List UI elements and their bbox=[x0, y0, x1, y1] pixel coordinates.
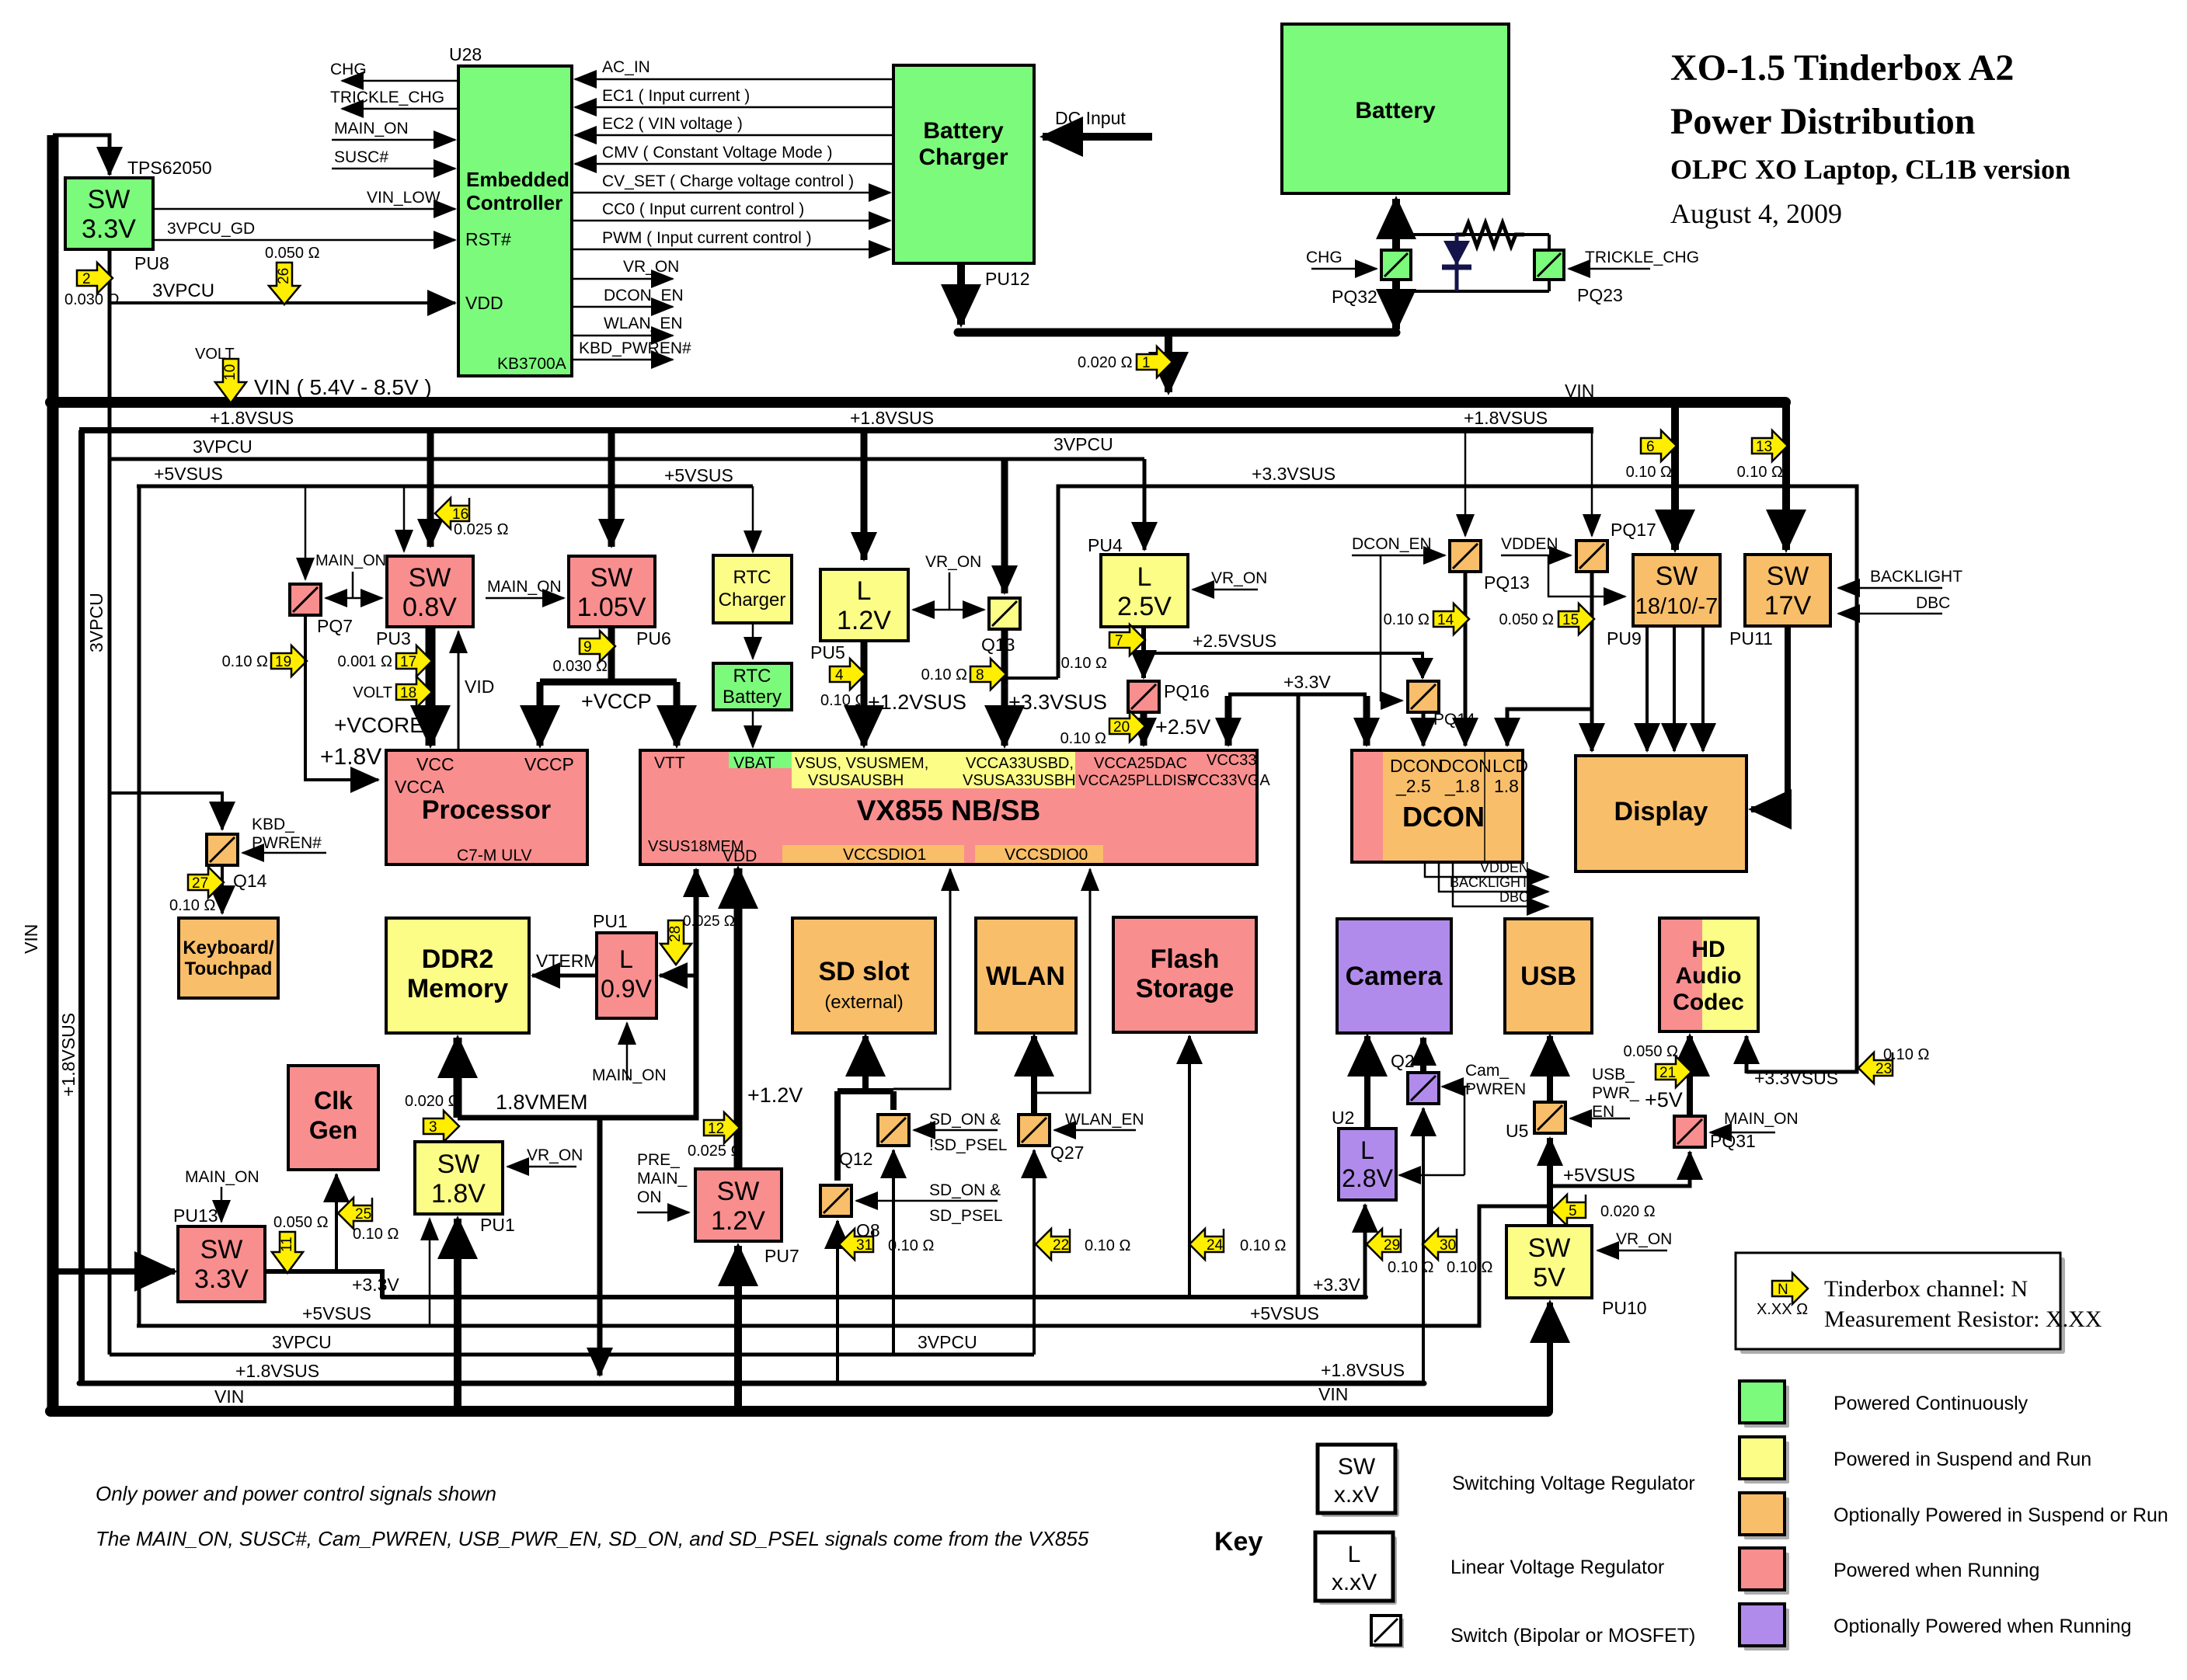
switch Q2 bbox=[1408, 1073, 1439, 1104]
svg-text:SW: SW bbox=[1767, 562, 1809, 591]
wire Q8 to +1.8VSUS bbox=[836, 1221, 839, 1383]
label Q12 bbox=[839, 1149, 872, 1169]
svg-text:PU10: PU10 bbox=[1602, 1298, 1647, 1318]
svg-text:PU5: PU5 bbox=[810, 642, 845, 663]
node VIN label bottom right bbox=[1318, 1384, 1348, 1404]
node +5VSUS label top left bbox=[154, 464, 223, 484]
wire Q12 to 3VPCU bbox=[892, 1150, 895, 1355]
svg-text:9: 9 bbox=[583, 639, 592, 656]
wire EC2 bbox=[575, 115, 893, 135]
switch PQ32 bbox=[1381, 250, 1411, 280]
svg-text:CV_SET ( Charge voltage contro: CV_SET ( Charge voltage control ) bbox=[602, 172, 854, 190]
svg-text:X.XX Ω: X.XX Ω bbox=[1757, 1301, 1808, 1318]
svg-text:x.xV: x.xV bbox=[1332, 1570, 1377, 1595]
wire VTERM L0.9V to DDR2 bbox=[532, 951, 599, 976]
label Q8 bbox=[856, 1220, 880, 1240]
svg-text:DCON_EN: DCON_EN bbox=[1352, 535, 1432, 553]
regulator PU11 SW 17V bbox=[1745, 555, 1830, 626]
svg-text:+1.2V: +1.2V bbox=[747, 1083, 803, 1107]
node +5VSUS label bottom right bbox=[1250, 1303, 1319, 1323]
svg-text:PWREN#: PWREN# bbox=[252, 834, 322, 852]
svg-text:_2.5: _2.5 bbox=[1395, 776, 1431, 796]
wire Q8 to SD junction bbox=[834, 1091, 841, 1181]
legend swatch red bbox=[1740, 1548, 1789, 1595]
switch PQ31 bbox=[1674, 1116, 1705, 1147]
svg-text:PU12: PU12 bbox=[985, 269, 1030, 289]
regulator PU1 L 0.9V bbox=[597, 933, 656, 1018]
label PU10 bbox=[1602, 1298, 1647, 1318]
svg-text:0.10 Ω: 0.10 Ω bbox=[353, 1226, 399, 1243]
svg-text:MAIN_ON: MAIN_ON bbox=[487, 578, 562, 596]
channel arrow 27 bbox=[169, 867, 224, 914]
svg-text:VTT: VTT bbox=[654, 754, 685, 772]
svg-text:30: 30 bbox=[1440, 1237, 1456, 1254]
svg-text:28: 28 bbox=[667, 926, 684, 942]
node +1.8VSUS label bottom right bbox=[1321, 1360, 1405, 1380]
channel arrow 29 bbox=[1367, 1229, 1433, 1276]
svg-text:PWR_: PWR_ bbox=[1592, 1084, 1639, 1102]
wire charger bus to VIN bbox=[1165, 332, 1172, 392]
svg-text:VIN: VIN bbox=[1318, 1384, 1348, 1404]
svg-text:Camera: Camera bbox=[1346, 962, 1443, 991]
wire 3VPCU top bus bbox=[110, 249, 1144, 1355]
label TPS62050 bbox=[127, 158, 212, 178]
svg-text:EN: EN bbox=[1592, 1103, 1614, 1121]
wire L2.8V to Camera bbox=[1364, 1036, 1370, 1129]
svg-text:AC_IN: AC_IN bbox=[602, 58, 650, 76]
chip WLAN bbox=[976, 918, 1076, 1033]
wire Q27 to 3VPCU bbox=[1033, 1150, 1036, 1355]
svg-text:11: 11 bbox=[279, 1237, 295, 1252]
svg-text:WLAN_EN: WLAN_EN bbox=[1065, 1111, 1144, 1129]
channel arrow 6 bbox=[1626, 430, 1677, 481]
svg-text:+3.3V: +3.3V bbox=[1283, 672, 1331, 692]
label Switching Voltage Regulator bbox=[1452, 1473, 1695, 1494]
regulator PU9 SW 18/10/-7 bbox=[1633, 555, 1720, 626]
svg-text:EC1 ( Input current ): EC1 ( Input current ) bbox=[602, 87, 750, 105]
wire PQ32 down to charger bus bbox=[1392, 280, 1400, 329]
svg-text:+VCORE: +VCORE bbox=[334, 713, 424, 737]
chip Display bbox=[1576, 756, 1746, 871]
svg-text:VIN: VIN bbox=[214, 1386, 244, 1407]
wire PRE_MAIN_ON to SW1.2V bbox=[637, 1151, 689, 1212]
legend swatch purple bbox=[1740, 1604, 1789, 1650]
channel arrow 3 bbox=[405, 1093, 460, 1142]
channel arrow 28 bbox=[660, 913, 735, 965]
svg-text:15: 15 bbox=[1562, 612, 1579, 628]
svg-text:EC2 ( VIN voltage ): EC2 ( VIN voltage ) bbox=[602, 115, 743, 133]
svg-text:23: 23 bbox=[1875, 1061, 1892, 1077]
wire VR_ON to L2.5V bbox=[1193, 569, 1267, 590]
svg-text:CC0 ( Input current control ): CC0 ( Input current control ) bbox=[602, 200, 804, 218]
svg-text:2.8V: 2.8V bbox=[1342, 1164, 1393, 1192]
svg-text:26: 26 bbox=[276, 268, 292, 284]
svg-text:21: 21 bbox=[1659, 1065, 1676, 1081]
wire +5VSUS to RTC Charger bbox=[752, 486, 754, 552]
svg-text:PU1: PU1 bbox=[480, 1215, 515, 1235]
node +3.3VSUS label bottom bbox=[1754, 1068, 1838, 1088]
node 3VPCU label top left bbox=[193, 437, 252, 457]
svg-text:PU1: PU1 bbox=[593, 911, 628, 931]
wire +5VSUS bottom bus bbox=[137, 1206, 1548, 1326]
wire +2.5VSUS to PQ14 bbox=[1412, 655, 1433, 680]
key box L x.xV bbox=[1315, 1532, 1397, 1605]
label PQ16 bbox=[1164, 681, 1210, 701]
svg-text:PQ16: PQ16 bbox=[1164, 681, 1210, 701]
channel arrow 24 bbox=[1189, 1229, 1286, 1260]
node +1.8VSUS label top mid bbox=[850, 408, 934, 428]
wire VIN to SW1.8V bbox=[454, 1219, 461, 1411]
svg-text:VCC33VGA: VCC33VGA bbox=[1187, 772, 1270, 789]
wire CHG into PQ32 bbox=[1306, 249, 1377, 269]
wire PQ7 output +1.8V to Processor VCCA bbox=[305, 615, 381, 780]
legend swatch green bbox=[1740, 1381, 1789, 1428]
svg-text:29: 29 bbox=[1384, 1237, 1400, 1254]
label PU3 bbox=[376, 628, 411, 649]
svg-text:DCON_EN: DCON_EN bbox=[604, 287, 684, 304]
svg-text:Touchpad: Touchpad bbox=[185, 958, 273, 979]
svg-text:Measurement Resistor: X.XX: Measurement Resistor: X.XX bbox=[1824, 1306, 2102, 1332]
switch PQ13 bbox=[1450, 541, 1481, 572]
svg-text:0.10 Ω: 0.10 Ω bbox=[169, 897, 215, 914]
chip Flash Storage bbox=[1113, 917, 1256, 1032]
svg-text:!SD_PSEL: !SD_PSEL bbox=[929, 1136, 1007, 1154]
svg-text:x.xV: x.xV bbox=[1334, 1482, 1379, 1508]
svg-text:KBD_PWREN#: KBD_PWREN# bbox=[579, 339, 691, 357]
svg-text:+1.8VSUS: +1.8VSUS bbox=[210, 408, 294, 428]
channel arrow 17 bbox=[337, 645, 432, 677]
wire PWM bbox=[572, 229, 890, 249]
wire SW18 outputs to Display bbox=[1647, 626, 1703, 751]
label PQ31 bbox=[1710, 1131, 1756, 1151]
svg-text:+1.8VSUS: +1.8VSUS bbox=[1321, 1360, 1405, 1380]
svg-text:4: 4 bbox=[835, 667, 844, 683]
chip Keyboard/Touchpad bbox=[179, 918, 278, 998]
wire Q2 to +1.8VSUS bbox=[1422, 1108, 1425, 1383]
key box SW x.xV bbox=[1318, 1445, 1399, 1517]
channel arrow 20 bbox=[1060, 711, 1145, 747]
svg-text:0.025 Ω: 0.025 Ω bbox=[454, 521, 509, 538]
label note1 bbox=[96, 1482, 496, 1505]
svg-text:22: 22 bbox=[1053, 1237, 1069, 1254]
svg-text:DBC: DBC bbox=[1916, 594, 1950, 612]
wire +1.8VSUS to SW0.8V bbox=[427, 430, 434, 547]
wire +3.3V arrows into VX855 and DCON bbox=[1228, 696, 1367, 746]
svg-text:Battery: Battery bbox=[723, 687, 782, 708]
diode trickle charge bbox=[1442, 235, 1471, 291]
svg-text:VCCA: VCCA bbox=[395, 777, 445, 797]
svg-text:SW: SW bbox=[200, 1235, 243, 1264]
channel arrow 31 bbox=[839, 1229, 934, 1260]
svg-text:0.10 Ω: 0.10 Ω bbox=[1883, 1046, 1929, 1063]
wire 3VPCU to Q13 bbox=[1001, 459, 1008, 593]
svg-text:VDDEN: VDDEN bbox=[1501, 535, 1558, 553]
svg-text:BACKLIGHT: BACKLIGHT bbox=[1870, 568, 1962, 586]
label PU6 bbox=[636, 628, 671, 649]
svg-text:+1.2VSUS: +1.2VSUS bbox=[868, 690, 966, 714]
label PU12 bbox=[985, 269, 1030, 289]
chip DDR2 Memory bbox=[386, 918, 529, 1033]
svg-text:Charger: Charger bbox=[719, 590, 786, 610]
label PQ17 bbox=[1611, 520, 1656, 540]
wire DCON DBC output bbox=[1453, 862, 1548, 906]
svg-text:TRICKLE_CHG: TRICKLE_CHG bbox=[330, 89, 444, 106]
wire +5VSUS to SW1.8V bbox=[429, 1219, 431, 1326]
svg-text:0.050 Ω: 0.050 Ω bbox=[265, 245, 320, 262]
wire VIN to SW5V bbox=[1547, 1303, 1553, 1411]
svg-text:0.10 Ω: 0.10 Ω bbox=[1384, 611, 1430, 628]
svg-text:0.10 Ω: 0.10 Ω bbox=[1240, 1237, 1286, 1254]
wire SD_ON & SD_PSEL into Q8 bbox=[856, 1181, 1003, 1225]
wire +3.3VSUS top bus bbox=[1058, 486, 1857, 1072]
svg-text:0.8V: 0.8V bbox=[402, 593, 457, 622]
wire +3.3V mid rail riser bbox=[1297, 694, 1301, 1297]
svg-text:KBD_: KBD_ bbox=[252, 816, 294, 833]
svg-text:CMV ( Constant Voltage Mode ): CMV ( Constant Voltage Mode ) bbox=[602, 144, 832, 162]
channel arrow 25 bbox=[338, 1198, 399, 1243]
label title line3 bbox=[1670, 154, 2070, 185]
svg-text:Optionally Powered when Runnin: Optionally Powered when Running bbox=[1834, 1616, 2132, 1637]
svg-text:0.050 Ω: 0.050 Ω bbox=[1623, 1043, 1678, 1060]
node +2.5VSUS label bbox=[1193, 631, 1276, 651]
svg-text:SD_ON &: SD_ON & bbox=[929, 1181, 1001, 1199]
svg-text:VCCA25PLLDISP: VCCA25PLLDISP bbox=[1078, 773, 1196, 789]
svg-text:PU8: PU8 bbox=[134, 253, 169, 273]
wire VIN_LOW bbox=[153, 189, 455, 209]
svg-text:0.10 Ω: 0.10 Ω bbox=[1447, 1259, 1492, 1276]
battery RTC Battery bbox=[713, 663, 792, 710]
wire +1.8VSUS to PQ13 bbox=[1464, 430, 1467, 536]
regulator PU6 SW 1.05V bbox=[569, 556, 655, 627]
svg-text:0.030 Ω: 0.030 Ω bbox=[64, 291, 120, 308]
wire SW5V output +5VSUS bbox=[1550, 1138, 1690, 1226]
svg-text:Optionally Powered in Suspend: Optionally Powered in Suspend or Run bbox=[1834, 1504, 2168, 1526]
svg-text:VR_ON: VR_ON bbox=[527, 1146, 583, 1164]
wire 1.8VMEM to L0.9V input bbox=[660, 974, 696, 978]
svg-text:PRE_: PRE_ bbox=[637, 1151, 680, 1169]
svg-text:DDR2: DDR2 bbox=[422, 944, 494, 974]
wire VR_ON to SW5V bbox=[1597, 1230, 1672, 1250]
wire +1.8VSUS top bus bbox=[79, 427, 1593, 433]
regulator RTC Charger bbox=[713, 555, 792, 623]
wire Q12 to SD junction bbox=[890, 1091, 897, 1110]
wire MAIN_ON to PQ7 and SW0.8V bbox=[315, 552, 386, 598]
wire PU12 charger output bbox=[958, 263, 1396, 332]
switch PQ17 bbox=[1576, 541, 1607, 572]
svg-text:Powered when Running: Powered when Running bbox=[1834, 1560, 2039, 1581]
wire VIN to SW17V bbox=[1782, 402, 1790, 550]
node 3VPCU label left vertical bbox=[86, 593, 106, 652]
wire CHG out bbox=[330, 61, 458, 81]
svg-text:Linear Voltage Regulator: Linear Voltage Regulator bbox=[1450, 1557, 1664, 1578]
svg-text:OLPC XO Laptop, CL1B version: OLPC XO Laptop, CL1B version bbox=[1670, 154, 2070, 185]
label PQ23 bbox=[1577, 285, 1623, 305]
svg-text:Memory: Memory bbox=[407, 974, 508, 1003]
svg-text:SD_ON &: SD_ON & bbox=[929, 1111, 1001, 1129]
svg-text:VSUSA33USBH: VSUSA33USBH bbox=[963, 772, 1076, 789]
wire VIN tap to TPS62050 bbox=[53, 135, 110, 175]
wire PQ14 output to DCON bbox=[1422, 712, 1426, 746]
svg-text:DC Input: DC Input bbox=[1055, 108, 1126, 128]
wire BACKLIGHT into SW17V bbox=[1838, 568, 1962, 588]
label PQ7 bbox=[317, 616, 353, 636]
svg-text:SUSC#: SUSC# bbox=[334, 148, 388, 166]
svg-text:0.025 Ω: 0.025 Ω bbox=[683, 913, 735, 930]
label Powered when Running bbox=[1834, 1560, 2039, 1581]
svg-text:0.020 Ω: 0.020 Ω bbox=[1600, 1203, 1656, 1220]
wire +3.3V mid rail bbox=[1228, 693, 1367, 697]
label PU7 bbox=[764, 1246, 799, 1266]
switch PQ23 bbox=[1534, 250, 1564, 280]
label Q14 bbox=[233, 871, 267, 891]
svg-text:RTC: RTC bbox=[733, 666, 771, 687]
svg-text:2.5V: 2.5V bbox=[1117, 592, 1172, 621]
regulator PU3 SW 0.8V bbox=[387, 556, 473, 627]
wire EC1 bbox=[575, 87, 893, 107]
wire MAIN_ON into PQ31 bbox=[1710, 1110, 1799, 1132]
svg-text:VCC: VCC bbox=[416, 754, 454, 774]
svg-text:Audio: Audio bbox=[1676, 963, 1742, 989]
wire USB feed from U5 bbox=[1547, 1036, 1553, 1102]
svg-text:18: 18 bbox=[400, 685, 416, 701]
svg-text:17: 17 bbox=[400, 654, 416, 670]
label Optionally Powered in Suspend or Run bbox=[1834, 1504, 2168, 1526]
svg-text:+1.8VSUS: +1.8VSUS bbox=[235, 1361, 319, 1381]
wire VID bbox=[458, 631, 494, 750]
wire USB_PWR_EN into U5 bbox=[1570, 1066, 1639, 1121]
svg-text:SD_PSEL: SD_PSEL bbox=[929, 1207, 1003, 1225]
chip HD Audio Codec bbox=[1659, 918, 1758, 1031]
svg-text:(external): (external) bbox=[824, 992, 903, 1013]
svg-text:VCCA25DAC: VCCA25DAC bbox=[1094, 755, 1187, 772]
svg-text:PQ17: PQ17 bbox=[1611, 520, 1656, 540]
svg-text:0.9V: 0.9V bbox=[601, 975, 652, 1003]
svg-text:0.10 Ω: 0.10 Ω bbox=[1060, 730, 1106, 747]
svg-text:VSUS, VSUSMEM,: VSUS, VSUSMEM, bbox=[795, 755, 928, 772]
wire WLAN_EN into Q27 bbox=[1054, 1111, 1144, 1130]
svg-text:3: 3 bbox=[429, 1119, 437, 1136]
switch PQ14 bbox=[1408, 681, 1439, 712]
wire +3.3V to L2.8V bbox=[1363, 1205, 1367, 1297]
regulator PU10 SW 5V bbox=[1506, 1226, 1592, 1298]
switch Q12 bbox=[878, 1115, 909, 1146]
svg-text:0.050 Ω: 0.050 Ω bbox=[1499, 611, 1554, 628]
svg-text:KB3700A: KB3700A bbox=[497, 355, 566, 373]
svg-text:U2: U2 bbox=[1332, 1108, 1354, 1128]
svg-text:Switch (Bipolar or MOSFET): Switch (Bipolar or MOSFET) bbox=[1450, 1625, 1695, 1647]
channel arrow 22 bbox=[1036, 1229, 1130, 1260]
node +5VSUS label bottom left bbox=[302, 1303, 371, 1323]
svg-text:SW: SW bbox=[1656, 562, 1698, 591]
label U28 bbox=[449, 44, 482, 64]
wire VIN to PU13 bbox=[53, 1268, 175, 1275]
wire +3.3VSUS to HD Audio right leg bbox=[1745, 1036, 1749, 1073]
wire TRICKLE_CHG into PQ23 bbox=[1569, 249, 1699, 269]
svg-text:MAIN_ON: MAIN_ON bbox=[315, 552, 386, 569]
wire VIN to SW18 bbox=[1671, 402, 1679, 550]
wire VCCSDIO1 tap bbox=[893, 869, 950, 1089]
channel arrow 23 bbox=[1858, 1046, 1929, 1083]
wire VIN top bus bbox=[50, 397, 1785, 408]
svg-text:3VPCU: 3VPCU bbox=[152, 280, 214, 301]
svg-text:3VPCU: 3VPCU bbox=[918, 1332, 977, 1352]
wire WLAN feed from Q27 bbox=[1031, 1036, 1037, 1115]
svg-text:DCON: DCON bbox=[1402, 801, 1485, 833]
regulator PU8 SW 3.3V (TPS62050) bbox=[65, 178, 153, 249]
label PQ14 bbox=[1433, 711, 1475, 729]
node 3VPCU label bottom left bbox=[272, 1332, 332, 1352]
wire +VCORE SW0.8V output bbox=[334, 627, 430, 746]
svg-text:C7-M ULV: C7-M ULV bbox=[457, 847, 531, 864]
chip DCON bbox=[1352, 750, 1528, 862]
label VIN range bbox=[254, 375, 432, 399]
channel arrow 12 bbox=[688, 1112, 743, 1160]
chip USB bbox=[1505, 919, 1592, 1033]
wire +5VSUS top bus bbox=[137, 485, 753, 489]
svg-text:+5V: +5V bbox=[1645, 1088, 1683, 1111]
node +1.8VSUS label left vertical bbox=[58, 1013, 78, 1097]
svg-text:27: 27 bbox=[192, 875, 208, 892]
wire PU13 output to +3.3V bbox=[265, 1271, 382, 1297]
svg-text:SW: SW bbox=[1338, 1454, 1376, 1480]
svg-text:XO-1.5 Tinderbox A2: XO-1.5 Tinderbox A2 bbox=[1670, 47, 2014, 89]
svg-text:VR_ON: VR_ON bbox=[925, 553, 981, 571]
label PQ13 bbox=[1484, 572, 1530, 593]
switch Q13 bbox=[989, 598, 1020, 629]
wire SD slot feed bbox=[838, 1036, 893, 1091]
svg-text:Only power and power control s: Only power and power control signals sho… bbox=[96, 1482, 496, 1505]
chip VX855 NB/SB bbox=[640, 750, 1270, 865]
svg-text:VX855 NB/SB: VX855 NB/SB bbox=[857, 795, 1041, 826]
wire L1.2V output +1.2VSUS bbox=[864, 641, 966, 746]
svg-text:PQ31: PQ31 bbox=[1710, 1131, 1756, 1151]
channel arrow 5 bbox=[1551, 1195, 1656, 1226]
chip U28 Embedded Controller KB3700A bbox=[458, 66, 572, 376]
svg-text:L: L bbox=[1137, 562, 1152, 592]
svg-text:ON: ON bbox=[637, 1188, 662, 1206]
svg-text:VDDEN: VDDEN bbox=[1480, 860, 1529, 875]
label note2 bbox=[96, 1527, 1089, 1550]
wire DCON_EN out bbox=[572, 287, 684, 307]
wire 3VPCU to Q14 bbox=[110, 793, 222, 830]
legend swatch orange bbox=[1740, 1493, 1789, 1539]
label Q27 bbox=[1050, 1143, 1084, 1163]
channel arrow 26 bbox=[265, 245, 320, 304]
node +3.3V mid label bbox=[1283, 672, 1331, 692]
svg-text:The MAIN_ON, SUSC#, Cam_PWREN,: The MAIN_ON, SUSC#, Cam_PWREN, USB_PWR_E… bbox=[96, 1527, 1089, 1550]
wire +3.3V to Clk Gen bbox=[335, 1174, 338, 1271]
svg-text:31: 31 bbox=[856, 1237, 872, 1254]
wire diode-resistor bottom rail bbox=[1396, 235, 1549, 291]
svg-text:RST#: RST# bbox=[465, 229, 511, 249]
channel arrow 14 bbox=[1384, 603, 1469, 635]
wire WLAN_EN out bbox=[572, 315, 683, 336]
node +5VSUS label top right bbox=[664, 465, 733, 485]
wire L2.5V output bbox=[1141, 627, 1146, 678]
svg-text:1.2V: 1.2V bbox=[837, 606, 891, 635]
svg-text:U28: U28 bbox=[449, 44, 482, 64]
svg-text:TPS62050: TPS62050 bbox=[127, 158, 212, 178]
label PU8 bbox=[134, 253, 169, 273]
svg-text:VSUSAUSBH: VSUSAUSBH bbox=[808, 772, 904, 789]
wire VIN to SW1.2V bbox=[734, 1246, 742, 1411]
legend swatch yellow bbox=[1740, 1437, 1789, 1483]
label Key bbox=[1214, 1527, 1262, 1557]
svg-text:0.10 Ω: 0.10 Ω bbox=[820, 692, 866, 709]
wire CV_SET bbox=[572, 172, 890, 193]
svg-text:0.001 Ω: 0.001 Ω bbox=[337, 653, 392, 670]
svg-text:MAIN_ON: MAIN_ON bbox=[1724, 1110, 1799, 1128]
